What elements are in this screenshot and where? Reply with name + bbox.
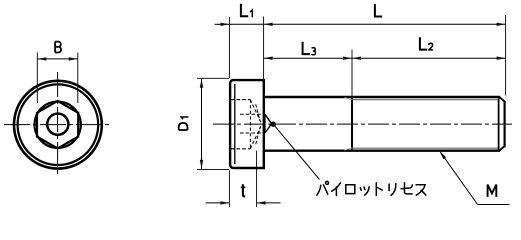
socket chamfer circle: [35, 102, 81, 148]
hex socket: [37, 101, 78, 149]
hex socket inner corner hidden line bottom: [240, 132, 265, 134]
D1 arrow bottom: [200, 160, 203, 169]
D1 dimension line: [201, 79, 203, 169]
head chamfer line: [234, 84, 236, 164]
ロ: [346, 185, 355, 194]
パ: [317, 181, 329, 195]
head chamfer circle: [18, 84, 99, 165]
label パイロットリセス (hand-drawn katakana strokes): [317, 181, 426, 195]
ス: [416, 185, 426, 195]
socket cone inner hidden line top: [256, 104, 261, 121]
L dimension line: [229, 23, 505, 25]
thread minor diameter bottom: [352, 147, 499, 149]
screw head outline: [230, 80, 264, 168]
pilot recess hole circle: [47, 114, 68, 135]
shank top line: [264, 96, 500, 98]
t dimension line right tail: [257, 202, 281, 204]
pilot recess cone lower edge: [265, 124, 272, 133]
L3 left arrow: [264, 57, 273, 60]
L1 dimension line tail: [215, 23, 230, 25]
centerline vertical (front view): [57, 72, 59, 177]
L3 dimension line: [264, 57, 352, 59]
L right arrow: [497, 23, 506, 26]
t extension line right: [256, 151, 258, 208]
extension line head left face: [228, 17, 230, 78]
t arrow left (outside): [220, 201, 229, 204]
L1 arrow (outside, pointing right): [220, 23, 229, 26]
リ: [389, 184, 396, 196]
label M: [488, 185, 497, 197]
extension line screw tip: [505, 15, 507, 96]
thread runout diagonal bottom: [345, 148, 353, 150]
label L3: [303, 42, 316, 55]
hex socket hidden line bottom: [231, 148, 251, 150]
B extension line left: [36, 53, 38, 104]
B dimension line: [37, 58, 78, 60]
M leader horizontal: [478, 204, 510, 206]
thread minor diameter top: [352, 99, 499, 101]
ッ: [360, 187, 369, 195]
hex socket inner corner hidden line top: [240, 113, 265, 115]
tip chamfer line: [498, 98, 500, 149]
leader dot on pilot recess: [271, 122, 276, 127]
label t: [241, 184, 246, 196]
t arrow right (outside): [257, 201, 266, 204]
shank bottom line: [264, 149, 500, 151]
label B: [55, 42, 61, 53]
label L: [375, 4, 382, 16]
イ: [332, 183, 341, 196]
extension line under-head: [263, 17, 265, 80]
D1 extension line bottom: [197, 169, 229, 171]
L2 dimension line: [352, 57, 506, 59]
centerline of screw axis: [213, 123, 512, 125]
pilot recess cone upper edge: [265, 114, 272, 123]
ト: [376, 183, 382, 196]
tip chamfer diagonal bottom: [499, 146, 505, 151]
socket bottom cone hidden line bottom: [250, 126, 261, 149]
セ: [401, 183, 412, 194]
label D1 (rotated): [179, 117, 189, 130]
label L1: [241, 4, 252, 17]
tip chamfer diagonal top: [499, 97, 505, 102]
L2 left arrow: [352, 57, 361, 60]
D1 extension line top: [197, 77, 229, 79]
L3 right arrow: [343, 57, 352, 60]
D1 arrow top: [200, 79, 203, 88]
thread start line: [351, 97, 353, 152]
M leader arrow: [440, 151, 447, 159]
centerline horizontal (front view): [4, 124, 111, 126]
socket bottom edge hidden line: [249, 100, 251, 149]
L left arrow: [264, 23, 273, 26]
socket bottom cone hidden line top: [250, 100, 261, 123]
head outer circle: [14, 81, 102, 169]
B arrow left: [37, 57, 46, 60]
leader line to pilot recess label: [274, 125, 319, 179]
M leader diagonal: [441, 152, 478, 204]
B arrow right: [69, 57, 78, 60]
B extension line right: [77, 53, 79, 104]
hex socket hidden line top: [231, 99, 251, 101]
L2 right arrow: [497, 57, 506, 60]
thread runout diagonal top: [345, 98, 353, 100]
label L2: [420, 37, 433, 50]
t dimension line left tail: [206, 202, 230, 204]
pilot recess cone base: [264, 114, 266, 133]
extension line thread start: [351, 50, 353, 97]
socket cone inner hidden line bottom: [256, 127, 261, 144]
tip end face: [504, 101, 506, 147]
t extension line left: [228, 171, 230, 208]
